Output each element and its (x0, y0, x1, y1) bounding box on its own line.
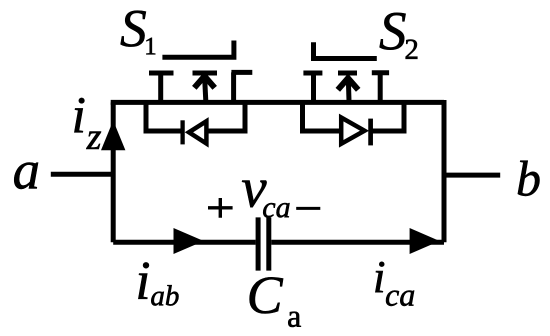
diode D2 loop wires (303, 100, 405, 131)
MOSFET S2 channel bars (303, 70, 389, 75)
wire b lead (444, 173, 500, 178)
MOSFET S1 gate (162, 41, 234, 58)
label minus sign (296, 207, 320, 210)
MOSFET S2 gate (314, 42, 377, 58)
label i_ca (375, 262, 414, 306)
diode D2 (points right) (341, 118, 370, 146)
MOSFET S1 channel bars (149, 70, 252, 76)
wire a lead (51, 172, 113, 177)
label S1 (121, 11, 156, 55)
MOSFET S1 right stub (231, 72, 236, 102)
MOSFET S1 body arrow (194, 76, 214, 101)
wire right vertical (442, 100, 447, 242)
wire bottom branch left (113, 240, 255, 245)
label C_a (250, 277, 301, 327)
wire left vertical (111, 103, 116, 243)
current arrow i_z (101, 121, 125, 151)
MOSFET S2 left stub (311, 73, 316, 103)
label plus sign (208, 198, 233, 218)
current arrow i_ab (174, 228, 204, 254)
label v_ca (242, 181, 289, 218)
label S2 (380, 13, 418, 59)
diode D1 (points left) (183, 120, 207, 144)
MOSFET S2 body arrow (338, 78, 358, 101)
MOSFET S2 right stub (378, 73, 383, 103)
current arrow i_ca (410, 228, 440, 254)
label i_ab (138, 262, 178, 305)
terminal label b (518, 161, 540, 196)
wire top branch (111, 100, 444, 105)
capacitor Ca plates (258, 217, 269, 270)
diode D1 loop wires (146, 100, 245, 131)
terminal label a (14, 163, 38, 189)
MOSFET S1 left stub (158, 73, 163, 103)
label i_z (74, 98, 101, 149)
wire bottom branch right (271, 240, 444, 245)
